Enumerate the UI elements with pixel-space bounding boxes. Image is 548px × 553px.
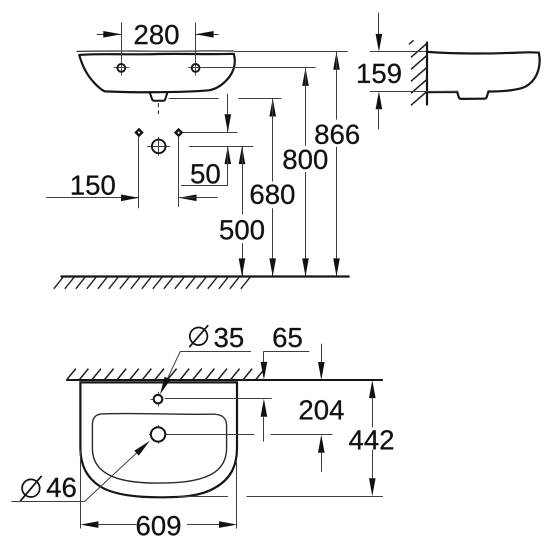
plan view: wall line <box>66 379 383 381</box>
extension line at basin front edge <box>178 496 383 498</box>
label Ø35: diameter symbol <box>189 325 208 347</box>
dimension 65: leader line <box>264 351 309 353</box>
dimension 280: left line and arrow <box>97 31 122 38</box>
extension line above left fixing hole <box>121 23 123 61</box>
extension line at diamond level <box>183 132 238 134</box>
side view: wall line <box>426 42 428 106</box>
dimension 159: label <box>358 64 401 84</box>
front view: basin outline <box>79 54 235 92</box>
extension line at basin underside <box>169 98 281 100</box>
label Ø46: text <box>47 478 76 498</box>
dimension 866: label <box>315 125 359 145</box>
extension line below left diamond <box>138 137 140 209</box>
front view: right tap-hole diamond <box>175 129 183 137</box>
dimension 159: bottom extension line <box>370 91 458 93</box>
dimension 800: vertical line with arrows <box>302 68 309 277</box>
dimension 65: upper arrow <box>261 351 268 380</box>
dimension 50: upper arrow <box>225 94 232 133</box>
dimension 609: line with arrows <box>80 521 237 528</box>
dimension 442: label <box>349 430 393 449</box>
dimension 800: label <box>283 150 327 170</box>
dimension 680: vertical line with arrows <box>269 99 276 277</box>
dimension 150: label <box>72 175 115 195</box>
dimension 159: upper arrow <box>376 13 383 52</box>
dimension 204: label <box>300 400 344 420</box>
label Ø46: leader line <box>11 441 150 502</box>
front view: left tap-hole diamond <box>135 129 143 137</box>
extension line below right diamond <box>178 137 180 207</box>
dimension 280: label <box>135 25 179 45</box>
dimension 866: vertical line with arrows <box>333 52 340 277</box>
extension line at tap hole <box>165 398 272 400</box>
side view: basin profile <box>428 52 540 99</box>
label Ø35: leader line <box>160 351 251 394</box>
dimension 609: right extension line <box>236 462 238 529</box>
front view: centre tap hole <box>147 137 170 156</box>
front view: rim back-edge line <box>77 50 234 53</box>
plan view: inner bowl outline <box>92 414 226 484</box>
dimension 500: label <box>220 220 264 240</box>
floor hatching <box>54 277 250 289</box>
front view: left fixing hole <box>114 60 130 75</box>
extension line at fixing hole level <box>203 67 316 69</box>
dimension 159: lower arrow <box>376 91 383 129</box>
floor line <box>61 275 350 277</box>
dimension 150: left line and arrow <box>46 195 139 202</box>
extension line above right fixing hole <box>195 23 197 61</box>
dimension 680: label <box>251 185 295 205</box>
front view: right fixing hole <box>188 60 204 75</box>
dimension 609: left extension line <box>80 450 82 529</box>
dimension 65: lower arrow <box>261 399 268 442</box>
plan view: basin outline <box>80 382 237 497</box>
plan view: drain hole <box>149 425 167 443</box>
extension line at rim level <box>234 51 348 53</box>
dimension 65: label <box>274 328 302 348</box>
dimension 50: label <box>191 164 220 184</box>
side view: wall hatching <box>409 40 427 105</box>
label Ø46: diameter symbol <box>20 476 41 501</box>
label Ø35: text <box>215 328 243 348</box>
dimension 204: upper arrow <box>318 344 325 380</box>
front view: drain axis dashed line <box>157 103 159 114</box>
plan view: tap hole <box>150 392 162 407</box>
dimension 204: lower arrow <box>318 435 325 472</box>
extension line at drain hole <box>167 434 333 436</box>
dimension 442: vertical line with arrows <box>369 380 376 496</box>
extension line at tap-hole level <box>189 146 253 148</box>
dimension 159: top extension line <box>370 51 426 53</box>
dimension 50: lower arrow <box>225 146 232 186</box>
dimension 500: vertical line with arrows <box>239 146 246 276</box>
dimension 280: right line and arrow <box>196 31 219 38</box>
front view: drain outlet <box>149 91 168 101</box>
dimension 50: leader underline <box>181 185 228 187</box>
plan view: wall hatching <box>67 369 265 380</box>
dimension 609: label <box>137 516 180 536</box>
dimension 150: right line and arrow <box>179 195 218 202</box>
